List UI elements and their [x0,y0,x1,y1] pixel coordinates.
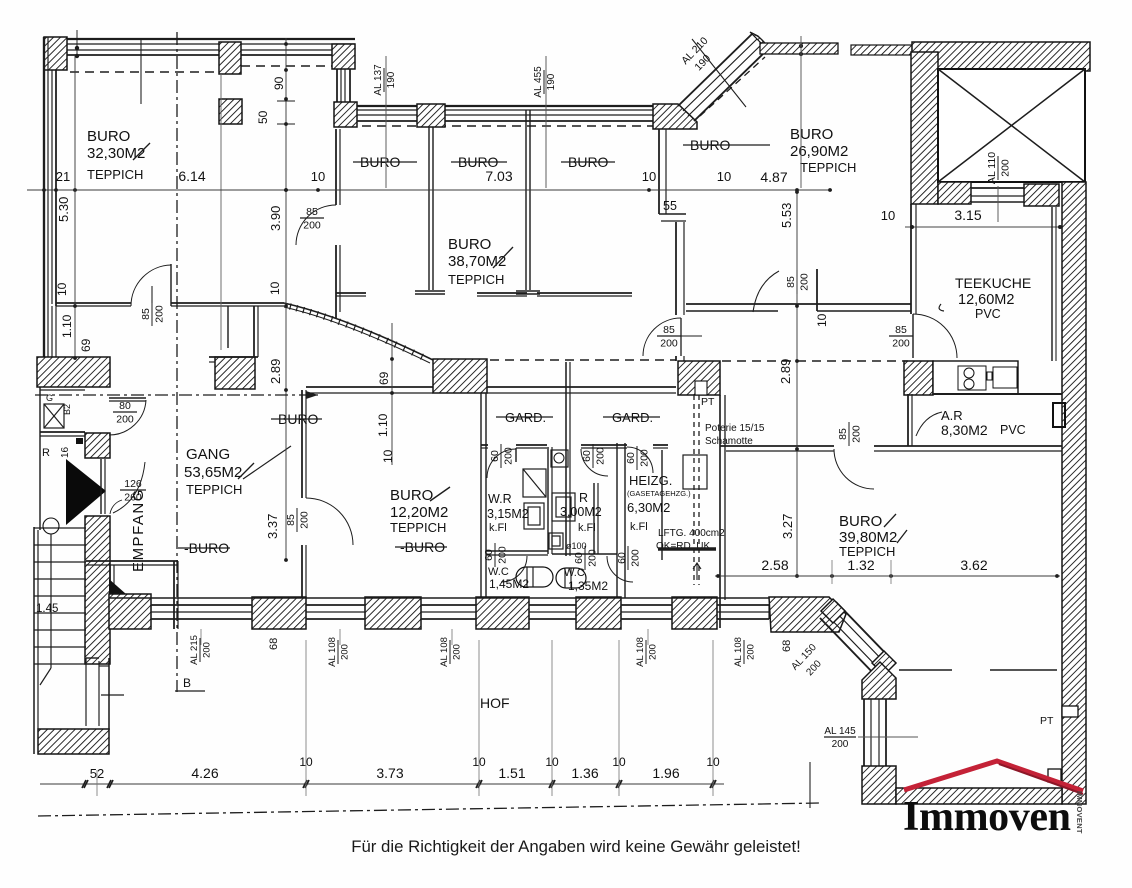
svg-text:200: 200 [154,305,166,323]
svg-text:TEPPICH: TEPPICH [448,272,504,287]
svg-text:3.62: 3.62 [960,557,987,573]
svg-text:Poterie 15/15: Poterie 15/15 [705,423,765,434]
svg-text:200: 200 [202,642,213,658]
svg-text:AL 108: AL 108 [439,637,450,667]
svg-text:85: 85 [837,428,849,440]
svg-text:2.58: 2.58 [761,557,788,573]
svg-text:AL 137: AL 137 [373,64,384,96]
svg-text:4.26: 4.26 [191,765,218,781]
svg-text:k.Fl: k.Fl [578,522,596,534]
svg-text:BURO: BURO [790,126,833,143]
svg-text:200: 200 [832,739,849,750]
svg-text:(GASETAGEHZG.): (GASETAGEHZG.) [627,489,691,498]
svg-text:85: 85 [140,308,152,320]
svg-text:BURO: BURO [390,487,433,504]
svg-text:AL 108: AL 108 [327,637,338,667]
svg-text:W.C: W.C [564,567,585,579]
svg-text:32,30M2: 32,30M2 [87,145,145,162]
svg-text:10: 10 [717,169,731,184]
svg-text:3,15M2: 3,15M2 [487,507,529,521]
svg-text:TEPPICH: TEPPICH [800,160,856,175]
svg-text:TEPPICH: TEPPICH [87,167,143,182]
svg-text:200: 200 [497,546,509,564]
svg-text:200: 200 [892,338,910,350]
svg-text:85: 85 [785,276,797,288]
svg-text:1.32: 1.32 [847,557,874,573]
svg-text:W.R: W.R [488,492,512,506]
svg-text:2.89: 2.89 [268,359,283,384]
svg-text:200: 200 [303,220,321,232]
svg-text:60: 60 [573,552,585,564]
svg-text:200: 200 [648,644,659,660]
svg-text:ø100: ø100 [566,541,587,551]
svg-text:10: 10 [642,169,656,184]
svg-text:1.96: 1.96 [652,765,679,781]
svg-text:200: 200 [746,644,757,660]
svg-text:LFTG. 400cm2: LFTG. 400cm2 [658,528,725,539]
svg-text:A.R: A.R [941,408,963,423]
svg-text:200: 200 [660,338,678,350]
svg-text:IMMOVENT: IMMOVENT [1075,791,1084,834]
svg-text:3.90: 3.90 [268,206,283,231]
svg-text:1.10: 1.10 [60,314,74,338]
svg-text:50: 50 [256,110,270,124]
svg-text:PVC: PVC [1000,423,1026,437]
svg-text:200: 200 [503,447,515,465]
svg-text:GANG: GANG [186,446,230,463]
svg-text:HEIZG.: HEIZG. [629,473,672,488]
svg-text:80: 80 [119,400,131,412]
svg-text:AL 108: AL 108 [635,637,646,667]
svg-text:6,30M2: 6,30M2 [627,500,670,515]
svg-text:200: 200 [851,425,863,443]
svg-text:10: 10 [311,169,325,184]
svg-text:3.15: 3.15 [954,207,981,223]
svg-text:4.87: 4.87 [760,169,787,185]
svg-text:Schamotte: Schamotte [705,436,753,447]
svg-text:85: 85 [306,206,318,218]
svg-text:26,90M2: 26,90M2 [790,143,848,160]
svg-text:TEPPICH: TEPPICH [186,482,242,497]
svg-text:AL 110: AL 110 [986,152,998,184]
svg-text:3.27: 3.27 [780,514,795,539]
svg-text:10: 10 [881,208,895,223]
svg-text:200: 200 [799,273,811,291]
svg-text:k.Fl: k.Fl [630,521,648,533]
svg-text:BURO: BURO [839,513,882,530]
svg-text:85: 85 [895,324,907,336]
svg-text:5.30: 5.30 [56,197,71,222]
svg-text:260: 260 [124,492,142,504]
svg-text:16: 16 [60,446,71,458]
svg-text:85: 85 [663,324,675,336]
svg-text:PVC: PVC [975,307,1001,321]
svg-text:k.Fl: k.Fl [489,522,507,534]
svg-text:60: 60 [483,549,495,561]
svg-text:200: 200 [452,644,463,660]
svg-text:200: 200 [340,644,351,660]
svg-text:R: R [42,447,50,459]
svg-text:200: 200 [587,549,599,567]
svg-text:55: 55 [663,199,677,213]
svg-text:1.51: 1.51 [498,765,525,781]
svg-text:B: B [183,676,191,690]
svg-text:AL 215: AL 215 [189,635,200,665]
svg-text:BURO: BURO [448,236,491,253]
svg-text:10: 10 [815,313,829,327]
svg-text:10: 10 [268,281,282,295]
svg-text:AL 455: AL 455 [533,66,544,98]
svg-text:AL 108: AL 108 [733,637,744,667]
svg-text:68: 68 [268,638,280,650]
svg-text:1.36: 1.36 [571,765,598,781]
svg-text:Immoven: Immoven [903,794,1071,840]
svg-text:38,70M2: 38,70M2 [448,253,506,270]
svg-text:60: 60 [489,450,501,462]
svg-text:200: 200 [1000,159,1012,177]
svg-text:7.03: 7.03 [485,168,512,184]
svg-text:190: 190 [546,73,557,90]
svg-text:PT: PT [1040,715,1054,727]
svg-text:12,20M2: 12,20M2 [390,504,448,521]
svg-text:1,45M2: 1,45M2 [489,577,529,591]
svg-text:1,35M2: 1,35M2 [568,579,608,593]
svg-text:200: 200 [595,447,607,465]
svg-text:Für die Richtigkeit der Angabe: Für die Richtigkeit der Angaben wird kei… [351,837,801,856]
svg-text:HOF: HOF [480,695,510,711]
svg-text:10: 10 [381,449,395,463]
svg-text:TEPPICH: TEPPICH [390,520,446,535]
svg-text:3.73: 3.73 [376,765,403,781]
svg-text:10: 10 [55,282,69,296]
svg-text:21: 21 [56,169,70,184]
svg-text:190: 190 [386,71,397,88]
svg-text:B2: B2 [62,404,72,415]
svg-text:60: 60 [625,452,637,464]
svg-text:6.14: 6.14 [178,168,205,184]
svg-text:3,00M2: 3,00M2 [560,505,602,519]
svg-text:60: 60 [616,552,628,564]
svg-text:90: 90 [272,76,286,90]
svg-text:8,30M2: 8,30M2 [941,422,988,438]
svg-text:126: 126 [124,478,142,490]
svg-text:69: 69 [79,338,93,352]
svg-text:53,65M2: 53,65M2 [184,464,242,481]
svg-text:60: 60 [581,450,593,462]
svg-text:85: 85 [285,514,297,526]
svg-text:68: 68 [781,640,793,652]
svg-text:200: 200 [639,449,651,467]
svg-text:R: R [579,491,588,505]
svg-text:5.53: 5.53 [779,203,794,228]
svg-text:12,60M2: 12,60M2 [958,292,1014,308]
svg-text:BURO: BURO [87,128,130,145]
svg-text:200: 200 [116,414,134,426]
svg-text:200: 200 [299,511,311,529]
svg-text:69: 69 [377,371,391,385]
svg-text:1.10: 1.10 [376,413,390,437]
svg-text:200: 200 [630,549,642,567]
svg-text:1.45: 1.45 [36,603,58,615]
svg-text:AL 145: AL 145 [824,726,856,737]
svg-text:2.89: 2.89 [778,359,793,384]
svg-text:3.37: 3.37 [265,514,280,539]
svg-text:PT: PT [701,396,715,408]
svg-text:TEEKUCHE: TEEKUCHE [955,275,1031,291]
